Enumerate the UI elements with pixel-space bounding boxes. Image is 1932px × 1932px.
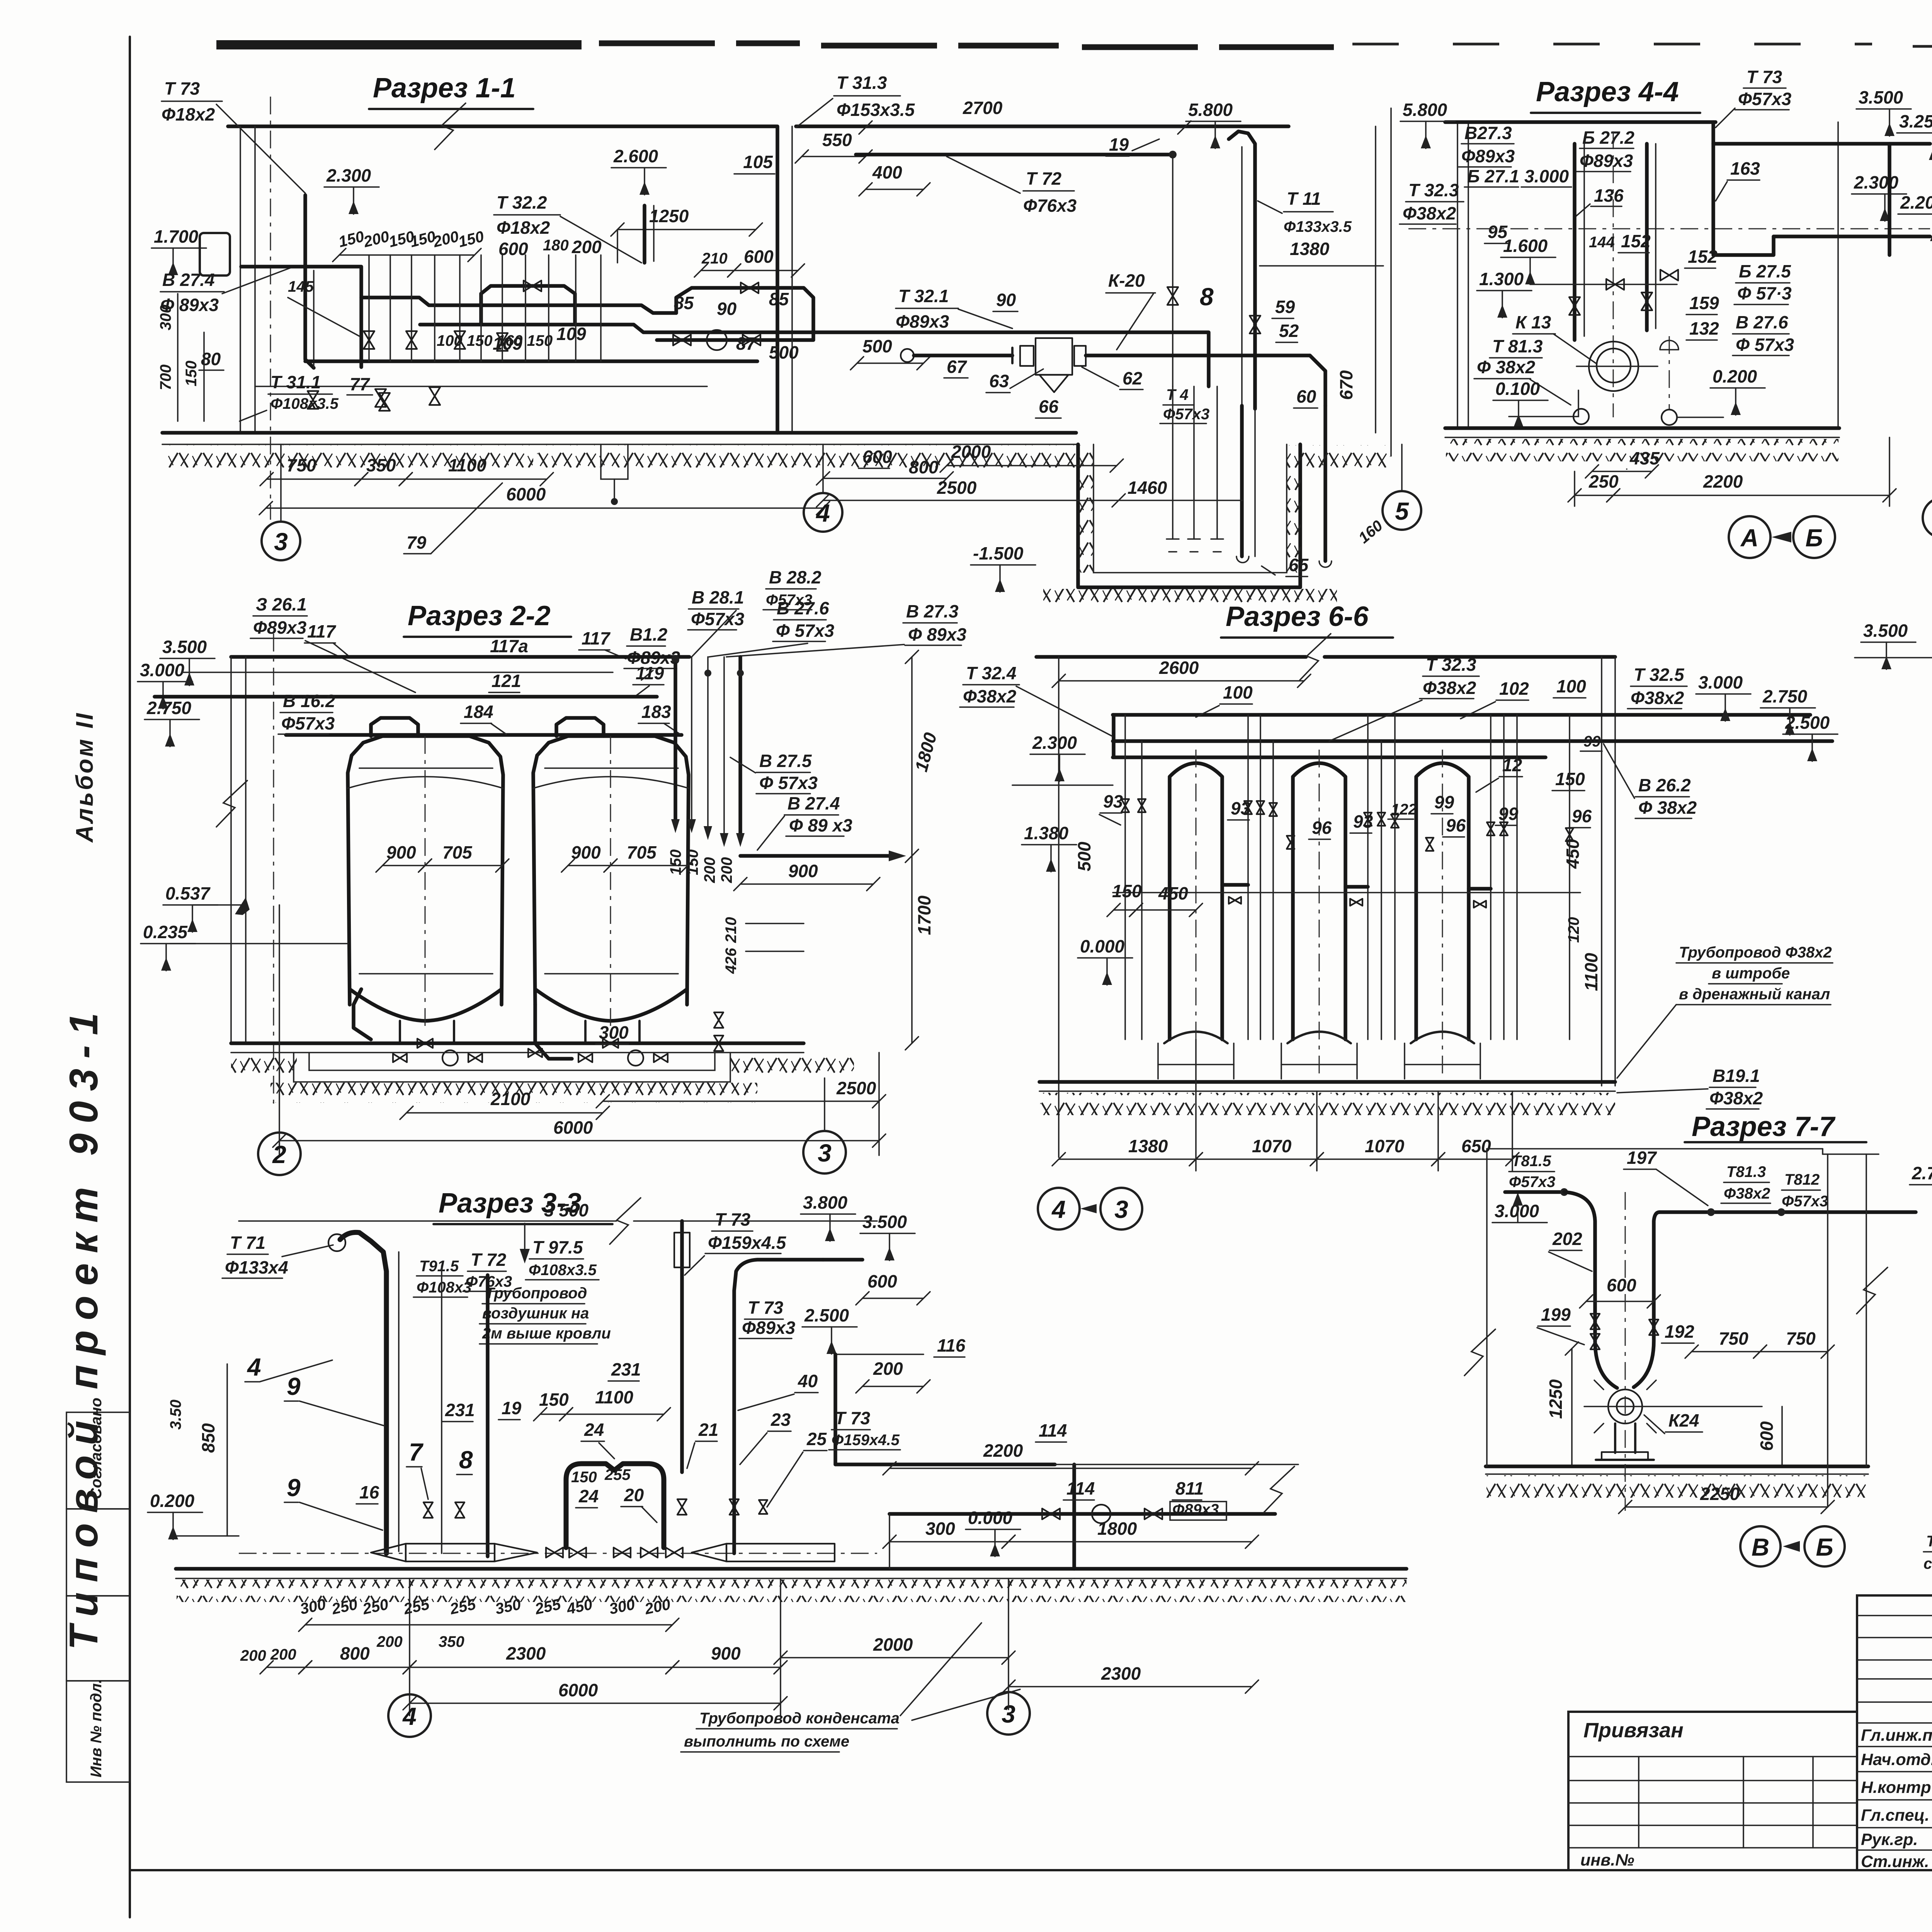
svg-text:Ф57х3: Ф57х3 (766, 592, 812, 609)
svg-text:2000: 2000 (951, 442, 991, 462)
svg-text:В 27.4: В 27.4 (787, 793, 840, 813)
svg-text:120: 120 (1565, 917, 1582, 943)
svg-text:183: 183 (641, 702, 671, 722)
svg-text:Ф18х2: Ф18х2 (497, 218, 550, 238)
svg-text:3: 3 (1114, 1196, 1128, 1223)
page border bottom (130, 1869, 1932, 1871)
1-1 pipe B27.4 horizontal (241, 267, 361, 367)
svg-text:Трубопровод: Трубопровод (485, 1285, 587, 1302)
svg-text:5: 5 (1395, 497, 1409, 525)
svg-text:500: 500 (1074, 842, 1094, 871)
svg-text:-1.500: -1.500 (973, 543, 1024, 563)
svg-text:2.750: 2.750 (1912, 1163, 1932, 1183)
4-4 floor (1445, 426, 1839, 430)
svg-text:900: 900 (571, 842, 601, 862)
6-6 dim 2600 (1059, 680, 1304, 682)
1-1 pipe T32.1 long (757, 332, 1209, 386)
svg-text:0.100: 0.100 (1495, 379, 1540, 399)
svg-text:1460: 1460 (1128, 478, 1167, 498)
svg-text:600: 600 (744, 247, 774, 267)
1-1 dim 6000 row (266, 507, 823, 509)
svg-text:2500: 2500 (937, 478, 977, 498)
1-1 floor main (162, 431, 1076, 435)
svg-text:Ф38х2: Ф38х2 (1724, 1185, 1770, 1202)
svg-text:24: 24 (584, 1420, 604, 1440)
6-6 boilers (1170, 763, 1222, 1039)
svg-text:6000: 6000 (506, 484, 546, 504)
svg-text:Б: Б (1816, 1533, 1833, 1561)
svg-text:Ф38х2: Ф38х2 (1403, 203, 1456, 223)
svg-text:Т 73: Т 73 (835, 1408, 870, 1428)
svg-text:600: 600 (498, 239, 528, 259)
svg-text:2200: 2200 (983, 1440, 1023, 1461)
margin stamp boxes (66, 1412, 130, 1509)
svg-text:Рук.гр.: Рук.гр. (1861, 1830, 1918, 1849)
svg-text:231: 231 (445, 1400, 475, 1420)
svg-text:Ф57х3: Ф57х3 (691, 609, 745, 629)
svg-text:Т 72: Т 72 (1026, 168, 1061, 189)
1-1 pit (1078, 444, 1300, 587)
1-1 grid line col3 (270, 97, 271, 520)
svg-text:184: 184 (464, 702, 493, 722)
1-1 right wall lines near col5 (1375, 126, 1376, 433)
svg-text:3.500: 3.500 (862, 1212, 907, 1232)
svg-text:150: 150 (539, 1389, 569, 1410)
3-3 floor and hatch (176, 1567, 1074, 1571)
svg-text:122: 122 (1391, 801, 1417, 818)
svg-text:0.235: 0.235 (143, 922, 188, 942)
1-1 manifold mid pipe (420, 325, 757, 332)
1-1 vertical drop from T72 (1172, 155, 1173, 386)
svg-text:99: 99 (1583, 733, 1601, 750)
3-3 axis 4 3 (388, 1694, 431, 1737)
svg-text:23: 23 (770, 1410, 791, 1430)
svg-text:59: 59 (1275, 297, 1295, 317)
svg-text:99: 99 (1434, 792, 1454, 812)
svg-text:300: 300 (157, 304, 174, 330)
svg-text:200: 200 (571, 237, 602, 257)
svg-text:60: 60 (1296, 386, 1316, 406)
svg-text:450: 450 (1158, 883, 1188, 903)
2-2 riser bundle right (673, 657, 677, 819)
svg-text:210: 210 (723, 917, 740, 943)
svg-text:Ф89х3: Ф89х3 (896, 311, 949, 332)
svg-text:119: 119 (636, 663, 664, 683)
svg-text:В 16.2: В 16.2 (283, 691, 335, 711)
svg-text:90: 90 (717, 299, 737, 319)
svg-text:117а: 117а (490, 636, 528, 656)
svg-text:450: 450 (1563, 839, 1583, 869)
2-2 dims 2100 2500 6000 (406, 1112, 603, 1114)
svg-text:705: 705 (627, 842, 657, 862)
svg-text:811: 811 (1175, 1478, 1204, 1498)
svg-text:Ф153х3.5: Ф153х3.5 (837, 100, 915, 120)
svg-text:2300: 2300 (1101, 1663, 1141, 1684)
8-8 axis 3 4 (1923, 498, 1932, 538)
svg-text:Трубопровод конденсата: Трубопровод конденсата (699, 1710, 900, 1727)
svg-text:62: 62 (1122, 368, 1143, 388)
svg-text:200: 200 (873, 1359, 903, 1379)
svg-text:сата выполнить по схеме: сата выполнить по схеме (1923, 1555, 1932, 1572)
svg-text:144: 144 (1589, 234, 1615, 251)
svg-text:12: 12 (1502, 755, 1522, 775)
7-7 pump K24 (1608, 1389, 1642, 1423)
svg-text:670: 670 (1336, 370, 1356, 400)
7-7 dim 2250 (1625, 1506, 1828, 1508)
svg-text:199: 199 (1541, 1304, 1571, 1325)
svg-text:0.200: 0.200 (150, 1491, 195, 1511)
4-4 top pipe right (1713, 142, 1930, 146)
svg-text:200: 200 (270, 1646, 296, 1663)
4-4 ceiling (1445, 120, 1716, 124)
7-7 pipes (1505, 1190, 1560, 1194)
signature table (1856, 1595, 1858, 1870)
svg-text:Трубопровод Ф38х2: Трубопровод Ф38х2 (1679, 944, 1832, 961)
svg-text:2: 2 (272, 1141, 286, 1168)
svg-text:250: 250 (1588, 471, 1619, 492)
title block outer (1857, 1595, 1932, 1870)
svg-text:114: 114 (1066, 1478, 1095, 1498)
svg-text:3.000: 3.000 (1698, 672, 1743, 692)
svg-text:200: 200 (376, 1633, 403, 1650)
6-6 dims 150 450 (1114, 909, 1136, 911)
svg-text:Т 73: Т 73 (748, 1298, 783, 1318)
svg-text:Т 71: Т 71 (230, 1233, 265, 1253)
svg-text:1100: 1100 (1581, 953, 1601, 991)
svg-text:96: 96 (1446, 815, 1466, 835)
svg-text:96: 96 (1572, 806, 1592, 826)
svg-text:Ф108х3: Ф108х3 (417, 1279, 471, 1296)
svg-text:Ф133х4: Ф133х4 (225, 1257, 288, 1277)
svg-text:в дренажный канал: в дренажный канал (1679, 986, 1830, 1003)
svg-text:Ф57х3: Ф57х3 (281, 713, 335, 733)
2-2 tank 2 (533, 736, 689, 1005)
svg-text:Б: Б (1805, 524, 1823, 552)
svg-text:750: 750 (1719, 1328, 1748, 1349)
svg-text:Ф108х3.5: Ф108х3.5 (529, 1262, 597, 1279)
2-2 floor hatch (231, 1053, 297, 1076)
svg-text:Т 32.5: Т 32.5 (1634, 665, 1685, 685)
svg-text:0.537: 0.537 (165, 883, 211, 903)
3-3 floor pipes manifold (239, 1553, 877, 1554)
svg-text:В 26.2: В 26.2 (1638, 775, 1691, 795)
svg-text:900: 900 (386, 842, 416, 862)
svg-text:150: 150 (667, 849, 684, 875)
svg-text:Ф 57·3: Ф 57·3 (1737, 283, 1792, 303)
3-3 left riser T71 with elbow (340, 1232, 386, 1553)
svg-text:6000: 6000 (553, 1117, 593, 1138)
svg-text:152: 152 (1621, 231, 1651, 251)
svg-text:З 26.1: З 26.1 (256, 594, 307, 614)
1-1 axis circle 4 (822, 444, 824, 492)
svg-text:100: 100 (1223, 682, 1253, 702)
svg-text:87: 87 (736, 333, 757, 354)
svg-text:5.800: 5.800 (1188, 100, 1233, 120)
7-7 valves on curves (1590, 1314, 1600, 1329)
6-6 axis 4 3 (1038, 1188, 1080, 1230)
svg-text:Привязан: Привязан (1583, 1719, 1684, 1742)
svg-text:1.700: 1.700 (154, 226, 199, 247)
svg-text:231: 231 (611, 1359, 641, 1379)
svg-text:300: 300 (925, 1519, 955, 1539)
svg-text:192: 192 (1665, 1321, 1694, 1342)
svg-text:Т81.3: Т81.3 (1726, 1163, 1766, 1180)
svg-text:Ф89х3: Ф89х3 (1461, 146, 1515, 166)
svg-text:500: 500 (862, 336, 892, 356)
svg-text:Т 32.3: Т 32.3 (1426, 655, 1476, 675)
svg-text:Т 73: Т 73 (164, 78, 200, 99)
svg-text:Т 32.4: Т 32.4 (966, 663, 1016, 683)
2-2 tank 1 (348, 736, 503, 1005)
svg-text:Ф38х2: Ф38х2 (1423, 678, 1476, 698)
svg-text:136: 136 (1594, 185, 1624, 206)
svg-text:25: 25 (806, 1429, 827, 1449)
2-2 tank 2 legs (584, 1021, 587, 1043)
svg-text:202: 202 (1552, 1229, 1582, 1249)
svg-text:Т91.5: Т91.5 (419, 1258, 459, 1275)
1-1 valves on T11 (1250, 316, 1260, 333)
svg-text:2600: 2600 (1159, 658, 1199, 678)
7-7 walls (1486, 1149, 1488, 1466)
svg-text:8: 8 (1200, 283, 1214, 311)
svg-text:в штробе: в штробе (1712, 965, 1790, 982)
svg-text:Б 27.2: Б 27.2 (1582, 128, 1634, 148)
svg-text:Т 73: Т 73 (715, 1209, 750, 1230)
2-2 dim 900 right (740, 883, 873, 885)
svg-text:2300: 2300 (506, 1643, 546, 1663)
svg-text:2.300: 2.300 (1854, 172, 1899, 192)
svg-text:3.000: 3.000 (1524, 166, 1569, 186)
svg-text:Трубопровод конден-: Трубопровод конден- (1926, 1533, 1932, 1550)
svg-text:1.300: 1.300 (1479, 269, 1524, 289)
svg-text:2м выше кровли: 2м выше кровли (482, 1325, 611, 1342)
svg-text:20: 20 (624, 1485, 644, 1505)
svg-text:2.500: 2.500 (804, 1305, 849, 1325)
1-1 dim 210 600 (701, 270, 734, 271)
svg-text:705: 705 (442, 842, 473, 862)
4-4 valves mid (1606, 279, 1624, 290)
svg-text:2100: 2100 (490, 1089, 531, 1109)
1-1 axis circle 3 (280, 444, 282, 521)
svg-text:Разрез 2-2: Разрез 2-2 (408, 600, 551, 631)
svg-text:В19.1: В19.1 (1713, 1066, 1760, 1086)
2-2 bottom valves (417, 1039, 433, 1048)
2-2 left wall (230, 657, 232, 1043)
svg-text:40: 40 (798, 1371, 818, 1391)
svg-text:Т 81.3: Т 81.3 (1492, 336, 1543, 356)
svg-text:3 500: 3 500 (544, 1200, 589, 1220)
1-1 ceiling (228, 124, 777, 128)
3-3 risers mid (441, 1266, 442, 1553)
svg-text:Т 31.1: Т 31.1 (270, 372, 321, 392)
svg-text:9: 9 (287, 1474, 301, 1502)
svg-text:В 27.5: В 27.5 (759, 751, 812, 771)
3-3 step floor right (1055, 1464, 1298, 1465)
svg-text:1800: 1800 (1097, 1519, 1137, 1539)
svg-text:1070: 1070 (1252, 1136, 1292, 1156)
svg-text:65: 65 (1289, 555, 1309, 575)
1-1 left wall (240, 126, 241, 433)
3-3 ceiling (239, 1220, 616, 1222)
svg-text:2000: 2000 (873, 1634, 913, 1655)
svg-text:3.500: 3.500 (1863, 621, 1908, 641)
svg-text:200: 200 (718, 857, 735, 883)
1-1 left riser pipe T73 (305, 195, 314, 368)
svg-text:К 13: К 13 (1515, 312, 1551, 332)
7-7 top line (1487, 1148, 1823, 1150)
svg-text:Ф 57х3: Ф 57х3 (759, 773, 818, 793)
svg-text:Ф 38х2: Ф 38х2 (1477, 357, 1535, 377)
svg-text:2.300: 2.300 (1032, 733, 1077, 753)
svg-text:2250: 2250 (1700, 1484, 1740, 1504)
svg-text:Ф159х4.5: Ф159х4.5 (708, 1233, 787, 1253)
svg-text:117: 117 (307, 621, 337, 641)
svg-text:0.000: 0.000 (968, 1508, 1013, 1528)
1-1 dim row 750 350 1100 (267, 478, 361, 480)
1-1 axis circle 5 (1401, 444, 1403, 490)
svg-text:85: 85 (674, 293, 694, 313)
svg-text:150: 150 (1112, 881, 1142, 901)
1-1 burner horizontal (901, 349, 914, 362)
7-7 pump pedestal (1614, 1423, 1616, 1453)
3-3 compensator loop (566, 1464, 664, 1548)
svg-text:52: 52 (1279, 321, 1299, 341)
4-4 axis A B (1729, 516, 1770, 558)
svg-text:1100: 1100 (448, 455, 486, 475)
svg-text:4: 4 (815, 499, 830, 527)
2-2 tank 1 legs (399, 1021, 401, 1043)
svg-text:3.800: 3.800 (803, 1192, 848, 1213)
svg-text:1380: 1380 (1128, 1136, 1168, 1156)
svg-text:435: 435 (1629, 448, 1660, 468)
svg-text:К-20: К-20 (1108, 270, 1145, 291)
svg-text:1250: 1250 (1546, 1379, 1566, 1419)
svg-text:116: 116 (937, 1335, 966, 1355)
svg-text:1380: 1380 (1290, 239, 1330, 259)
svg-text:Ст.инж.: Ст.инж. (1861, 1852, 1929, 1871)
svg-text:Т 32.3: Т 32.3 (1408, 180, 1459, 200)
svg-text:В 28.1: В 28.1 (692, 587, 744, 607)
svg-text:19: 19 (1109, 134, 1129, 155)
svg-text:Т812: Т812 (1784, 1171, 1820, 1188)
svg-text:Альбом II: Альбом II (71, 711, 98, 843)
svg-text:1100: 1100 (595, 1387, 633, 1407)
2-2 floor (231, 1041, 804, 1045)
svg-text:В 28.2: В 28.2 (769, 567, 821, 587)
4-4 dims below (1592, 471, 1652, 472)
top scan smear (216, 40, 582, 49)
svg-text:Н.контр: Н.контр (1861, 1778, 1931, 1797)
svg-text:800: 800 (909, 457, 939, 477)
svg-text:93: 93 (1103, 791, 1123, 811)
svg-text:105: 105 (743, 152, 773, 172)
svg-text:3.50: 3.50 (167, 1400, 184, 1430)
svg-text:159: 159 (1689, 293, 1719, 313)
svg-text:В 27.3: В 27.3 (906, 601, 959, 621)
svg-text:6000: 6000 (558, 1680, 598, 1700)
svg-text:Ф76х3: Ф76х3 (1023, 196, 1077, 216)
svg-text:Ф89х3: Ф89х3 (1580, 151, 1633, 171)
svg-text:3: 3 (274, 528, 288, 556)
svg-text:Т 11: Т 11 (1287, 189, 1321, 209)
svg-text:2200: 2200 (1703, 471, 1743, 492)
svg-text:750: 750 (287, 455, 316, 475)
svg-text:210: 210 (701, 250, 728, 267)
6-6 dims below (1059, 1158, 1196, 1160)
svg-text:выполнить по схеме: выполнить по схеме (684, 1733, 849, 1750)
svg-text:Типовой проект 903-1: Типовой проект 903-1 (61, 1003, 106, 1650)
svg-text:4: 4 (1051, 1196, 1066, 1223)
7-7 floor (1486, 1464, 1868, 1468)
1-1 valves under pipes (375, 389, 386, 407)
svg-text:Нач.отд.: Нач.отд. (1861, 1750, 1932, 1769)
2-2 tank dims 900 705 (383, 865, 425, 866)
svg-text:3: 3 (818, 1139, 832, 1167)
6-6 valves row (1121, 799, 1129, 812)
6-6 ceiling (1036, 655, 1306, 659)
svg-text:96: 96 (1312, 818, 1332, 838)
svg-text:77: 77 (350, 374, 371, 394)
svg-text:8: 8 (459, 1446, 473, 1474)
2-2 top pipes (182, 672, 613, 673)
svg-text:350: 350 (366, 455, 396, 475)
svg-text:600: 600 (1757, 1421, 1777, 1451)
1-1 manifold low pipe (305, 359, 757, 363)
svg-text:350: 350 (439, 1633, 464, 1650)
svg-text:800: 800 (340, 1643, 370, 1663)
svg-text:21: 21 (698, 1420, 718, 1440)
svg-text:2.200: 2.200 (1900, 192, 1932, 213)
svg-text:Разрез 7-7: Разрез 7-7 (1692, 1111, 1836, 1142)
2-2 ink blot (235, 897, 250, 915)
2-2 tank center lines (425, 736, 426, 1028)
svg-text:24: 24 (578, 1486, 599, 1506)
svg-text:79: 79 (406, 532, 427, 553)
svg-text:7: 7 (409, 1438, 424, 1466)
svg-text:Согласовано: Согласовано (88, 1398, 105, 1499)
svg-text:А: А (1740, 524, 1759, 552)
7-7 axis V B (1740, 1526, 1781, 1566)
svg-text:Т 97.5: Т 97.5 (532, 1237, 583, 1257)
svg-text:2.600: 2.600 (613, 146, 658, 166)
1-1 manifold drop lines (368, 255, 370, 361)
svg-text:1250: 1250 (649, 206, 689, 226)
svg-text:197: 197 (1627, 1148, 1657, 1168)
svg-text:2.300: 2.300 (326, 165, 371, 185)
6-6 vertical pipes (1124, 715, 1126, 1039)
6-6 right wall (1614, 657, 1616, 1086)
6-6 floor (1039, 1080, 1615, 1084)
2-2 ceiling (231, 655, 689, 659)
svg-text:В 27.6: В 27.6 (1736, 312, 1788, 332)
svg-text:3.000: 3.000 (140, 660, 185, 680)
svg-text:145: 145 (288, 278, 314, 295)
1-1 manifold upper pipe (361, 298, 676, 313)
3-3 right lower pipes (889, 1512, 1275, 1516)
svg-text:Инв № подл.: Инв № подл. (88, 1679, 105, 1777)
3-3 right pipe T73 F89 (734, 1260, 823, 1553)
svg-text:Ф57х3: Ф57х3 (1509, 1173, 1555, 1190)
svg-text:63: 63 (989, 371, 1009, 391)
svg-text:500: 500 (769, 342, 799, 362)
svg-text:300: 300 (599, 1022, 629, 1043)
2-2 axis 2 3 (258, 1133, 301, 1175)
svg-text:Ф38х2: Ф38х2 (1631, 688, 1684, 708)
2-2 tank1 side pipe (354, 989, 371, 1039)
svg-text:400: 400 (872, 162, 902, 182)
svg-text:Ф 57х3: Ф 57х3 (1736, 335, 1794, 355)
svg-text:700: 700 (157, 364, 174, 390)
